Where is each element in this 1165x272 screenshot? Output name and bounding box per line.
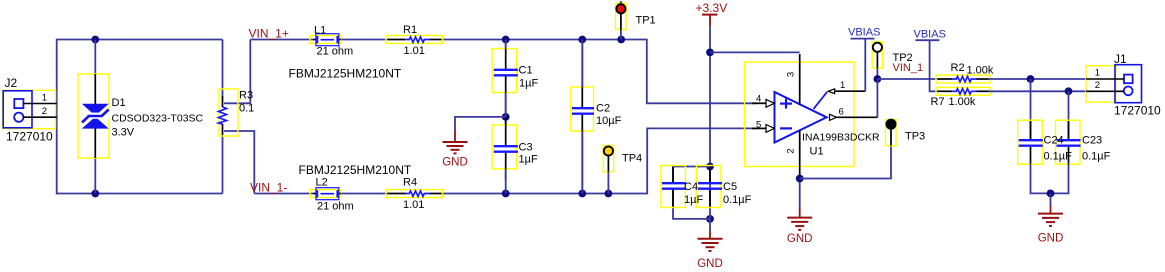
svg-text:2: 2 bbox=[1095, 80, 1100, 91]
wire D1 top lead bbox=[94, 40, 96, 75]
wire TP3 to pin2 net bbox=[800, 146, 891, 179]
wire C2 upper lead blue bbox=[581, 40, 583, 89]
svg-text:0.1: 0.1 bbox=[239, 103, 254, 115]
svg-text:1µF: 1µF bbox=[519, 154, 538, 166]
svg-text:R7: R7 bbox=[931, 96, 945, 108]
ground GND (C24/C23) bbox=[1038, 206, 1064, 245]
svg-text:C3: C3 bbox=[519, 142, 533, 154]
wire VIN_1+ rail (L1 to corner) bbox=[250, 40, 757, 104]
svg-text:R3: R3 bbox=[239, 90, 253, 102]
node U1 pin2 junction bbox=[796, 175, 804, 183]
wire C24/C23 bottoms to ground bbox=[1031, 163, 1069, 193]
svg-text:GND: GND bbox=[787, 233, 813, 245]
wire input loop top rail bbox=[57, 39, 223, 41]
ground GND (C1/C3 midpoint) bbox=[442, 130, 468, 169]
svg-text:2: 2 bbox=[786, 148, 797, 153]
ferrite bead L1 21 ohm bbox=[310, 25, 353, 58]
node C2 bottom junction bbox=[578, 190, 586, 198]
wire U1 pin2 to ground bbox=[799, 179, 801, 209]
pin 1 (REF) bbox=[814, 80, 866, 109]
svg-text:C24: C24 bbox=[1044, 135, 1064, 147]
svg-text:5: 5 bbox=[756, 119, 761, 130]
svg-text:C1: C1 bbox=[519, 65, 533, 77]
resistor R3 0.1 (shunt) bbox=[219, 89, 255, 136]
svg-text:L1: L1 bbox=[314, 25, 326, 37]
node C4/C5 top junction bbox=[706, 163, 714, 171]
svg-text:1.01: 1.01 bbox=[403, 199, 424, 211]
wire TP1 to rail bbox=[620, 30, 622, 40]
wire VBIAS to U1 pin1 bbox=[864, 39, 866, 92]
testpoint TP1 bbox=[616, 1, 656, 30]
label FBMJ2125HM210NT (bottom) bbox=[299, 163, 412, 177]
wire loop right vertical lower (from R3 bottom) bbox=[222, 135, 224, 194]
ferrite bead L2 21 ohm bbox=[310, 177, 354, 213]
svg-text:C4: C4 bbox=[684, 181, 698, 193]
connector J1 bbox=[1086, 52, 1161, 118]
svg-text:1.01: 1.01 bbox=[404, 45, 425, 57]
ground GND (U1 pin2) bbox=[787, 208, 813, 245]
svg-text:1: 1 bbox=[840, 80, 845, 91]
wire VIN_1- rail (L2 to corner) bbox=[254, 128, 757, 193]
node C24 tap junction bbox=[1027, 75, 1035, 83]
wire R7 to J1 pin2 bbox=[989, 90, 1087, 92]
wire TP2 lead bbox=[876, 68, 878, 79]
wire C5 vertical bbox=[709, 167, 711, 219]
svg-text:R1: R1 bbox=[403, 24, 417, 36]
svg-text:4: 4 bbox=[756, 94, 761, 105]
svg-text:3: 3 bbox=[786, 72, 797, 77]
svg-text:FBMJ2125HM210NT: FBMJ2125HM210NT bbox=[299, 163, 412, 177]
svg-text:J2: J2 bbox=[5, 76, 18, 90]
node C2 top junction bbox=[578, 36, 586, 44]
wire C3 bottom lead bbox=[505, 169, 507, 194]
svg-text:TP4: TP4 bbox=[622, 153, 642, 165]
svg-text:10µF: 10µF bbox=[596, 115, 622, 127]
wire C24 vertical bbox=[1030, 79, 1032, 140]
svg-text:VBIAS: VBIAS bbox=[914, 29, 946, 41]
wire C1 lead upper blue bbox=[505, 40, 507, 50]
svg-text:R4: R4 bbox=[403, 177, 417, 189]
node C3 bottom junction bbox=[502, 190, 510, 198]
svg-text:+3.3V: +3.3V bbox=[696, 1, 728, 15]
wire C23 vertical bbox=[1068, 91, 1070, 140]
net flag VBIAS (right) bbox=[914, 29, 946, 41]
svg-text:0.1µF: 0.1µF bbox=[1082, 151, 1111, 163]
label C4 value bbox=[684, 181, 703, 206]
svg-text:1.00k: 1.00k bbox=[949, 96, 976, 108]
node C1 top junction bbox=[502, 36, 510, 44]
svg-text:C5: C5 bbox=[723, 181, 737, 193]
wire +3.3V to U1 pin3 bbox=[710, 51, 800, 53]
node D1 bottom junction bbox=[91, 190, 99, 198]
testpoint TP2 bbox=[872, 42, 912, 69]
svg-text:VIN_1-: VIN_1- bbox=[250, 180, 287, 194]
svg-text:1727010: 1727010 bbox=[1114, 104, 1161, 118]
svg-text:C2: C2 bbox=[596, 103, 610, 115]
svg-text:D1: D1 bbox=[112, 97, 126, 109]
svg-text:GND: GND bbox=[1038, 233, 1064, 245]
svg-text:TP3: TP3 bbox=[905, 131, 925, 143]
svg-text:U1: U1 bbox=[810, 146, 824, 158]
resistor R7 1.00k bbox=[931, 87, 991, 108]
wire input loop left vertical bbox=[56, 39, 58, 195]
resistor R1 1.01 bbox=[386, 24, 443, 57]
wire C2 lower lead blue bbox=[581, 131, 583, 194]
svg-text:GND: GND bbox=[442, 157, 468, 169]
wire input loop bottom rail bbox=[57, 193, 223, 195]
svg-text:1: 1 bbox=[42, 93, 47, 104]
node VIN_1 label bbox=[893, 62, 924, 74]
node VIN_1+ label bbox=[249, 26, 289, 40]
node C23 tap junction bbox=[1065, 87, 1073, 95]
svg-text:1µF: 1µF bbox=[684, 194, 703, 206]
pin 3 (V+) bbox=[786, 54, 800, 105]
wire OUT to R2 bbox=[877, 78, 937, 80]
wire TP4 to rail bbox=[607, 172, 609, 194]
svg-text:1µF: 1µF bbox=[519, 78, 538, 90]
wire +3.3V vertical bbox=[709, 26, 711, 167]
svg-text:VIN_1: VIN_1 bbox=[893, 62, 924, 74]
svg-text:6: 6 bbox=[839, 107, 844, 118]
svg-text:21 ohm: 21 ohm bbox=[317, 201, 354, 213]
svg-text:VIN_1+: VIN_1+ bbox=[249, 26, 289, 40]
resistor R2 1.00k bbox=[936, 62, 994, 83]
wire loop right vertical upper (to R3 top) bbox=[222, 40, 224, 98]
node TP2/OUT junction bbox=[874, 75, 882, 83]
pin 2 (GND) bbox=[786, 130, 800, 179]
pin 5 (IN-) bbox=[752, 119, 775, 132]
wire GND stem bbox=[1050, 193, 1052, 206]
node GND junction (C24/C23) bbox=[1047, 190, 1055, 198]
label FBMJ2125HM210NT (top) bbox=[289, 67, 402, 81]
op-amp U1 INA199B3DCKR bbox=[745, 62, 881, 167]
node TP1 junction bbox=[617, 36, 625, 44]
svg-text:0.1µF: 0.1µF bbox=[723, 194, 752, 206]
net flag VBIAS (left) bbox=[848, 27, 880, 39]
resistor R4 1.01 bbox=[386, 177, 443, 212]
capacitor C2 10uF bbox=[571, 40, 622, 194]
node C1/C3 midpoint junction bbox=[502, 113, 510, 121]
wire C4 branch bbox=[673, 167, 710, 219]
diode D1 CDSOD323-T03SC TVS bbox=[78, 74, 204, 158]
svg-text:21 ohm: 21 ohm bbox=[317, 46, 354, 58]
svg-text:L2: L2 bbox=[316, 177, 328, 189]
svg-text:FBMJ2125HM210NT: FBMJ2125HM210NT bbox=[289, 67, 402, 81]
capacitor C23 0.1uF bbox=[1056, 120, 1111, 164]
capacitor C5 0.1uF bbox=[696, 166, 751, 208]
capacitor C24 0.1uF bbox=[1018, 120, 1043, 164]
pin 4 (IN+) bbox=[752, 94, 775, 108]
svg-text:CDSOD323-T03SC: CDSOD323-T03SC bbox=[112, 113, 204, 125]
node TP4 junction bbox=[605, 190, 613, 198]
node D1 top junction bbox=[91, 36, 99, 44]
wire OUT vertical (dot to pin6) bbox=[876, 79, 878, 117]
wire C1-C3 mid bbox=[505, 93, 507, 126]
svg-text:R2: R2 bbox=[951, 62, 965, 74]
connector J2 bbox=[3, 76, 57, 144]
wire GND tap from C1/C3 midpoint bbox=[455, 117, 506, 130]
svg-text:GND: GND bbox=[697, 258, 723, 270]
node C4/C5 bottom junction bbox=[706, 215, 714, 223]
ground GND (C4/C5) bbox=[697, 231, 723, 270]
svg-text:J1: J1 bbox=[1114, 52, 1127, 66]
label C24 value bbox=[1044, 135, 1073, 163]
testpoint TP3 bbox=[886, 120, 926, 146]
svg-text:1727010: 1727010 bbox=[6, 130, 53, 144]
wire R2 to J1 pin1 bbox=[989, 78, 1087, 80]
svg-text:INA199B3DCKR: INA199B3DCKR bbox=[802, 132, 880, 144]
svg-text:TP1: TP1 bbox=[636, 15, 656, 27]
node VIN_1- label bbox=[250, 180, 287, 194]
svg-text:C23: C23 bbox=[1082, 135, 1102, 147]
wire R3 bottom tap to VIN_1- bbox=[224, 131, 254, 194]
capacitor C1 1uF bbox=[492, 40, 538, 117]
svg-text:VBIAS: VBIAS bbox=[848, 27, 880, 39]
wire D1 bottom lead bbox=[94, 158, 96, 194]
svg-text:1.00k: 1.00k bbox=[967, 65, 994, 77]
testpoint TP4 bbox=[603, 146, 642, 172]
pin 6 (OUT) bbox=[830, 107, 878, 121]
svg-text:2: 2 bbox=[42, 106, 47, 117]
svg-text:1: 1 bbox=[1095, 68, 1100, 79]
wire VBIAS to R7 bbox=[930, 40, 938, 91]
wire R3 top tap to VIN_1+ bbox=[224, 40, 250, 104]
svg-text:3.3V: 3.3V bbox=[112, 127, 135, 139]
wire C4/C5 to ground bbox=[709, 219, 711, 232]
svg-text:0.1µF: 0.1µF bbox=[1044, 151, 1073, 163]
power +3.3V bbox=[696, 1, 728, 26]
capacitor C3 1uF bbox=[492, 117, 538, 180]
node +3.3V junction bbox=[706, 49, 714, 57]
capacitor C4 1uF bbox=[661, 166, 686, 208]
